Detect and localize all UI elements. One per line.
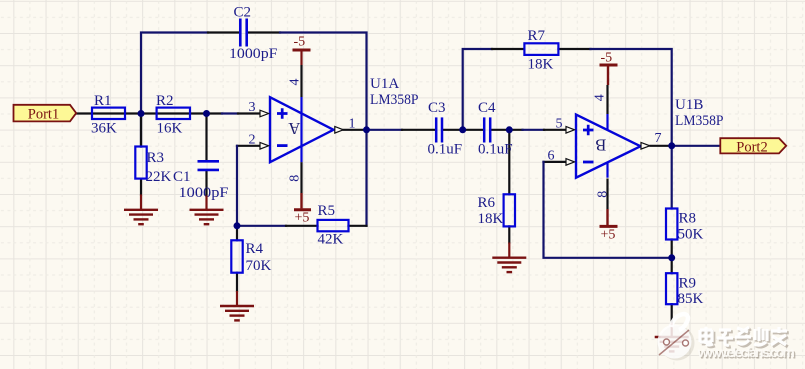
power -5 bar U1B [600,50,618,85]
wire: R4 top stem [236,226,238,241]
resistor R7 [524,28,558,73]
watermark big text (stylized CJK strokes) [702,329,789,347]
wire: U1B pin6 stub [544,161,566,163]
svg-text:R4: R4 [246,241,264,257]
svg-text:A: A [288,119,300,138]
wire: U1B pin5 stub [544,129,565,131]
wire: R7 feedback left vertical from C3/C4 node [463,49,492,130]
capacitor C3 [428,100,463,158]
resistor R3 [135,147,171,185]
pin 2 arrow U1A [260,143,269,150]
svg-text:R6: R6 [478,195,496,211]
svg-text:R5: R5 [318,203,336,219]
svg-text:R1: R1 [94,93,112,109]
pin 4 stub U1B [606,114,608,130]
wire: output node down to R8 [671,146,673,209]
watermark url text [697,344,796,361]
pin 4 stub U1A [300,97,302,162]
svg-text:8: 8 [288,175,303,182]
svg-text:+5: +5 [295,210,310,225]
wire: R6 bottom stem to ground [508,226,510,242]
svg-text:1000pF: 1000pF [229,46,278,62]
svg-text:36K: 36K [91,121,117,137]
wire: C2 feedback top-right run down to U1A output node [280,33,367,226]
wire: R7 feedback right run down to U1B output node [591,49,672,146]
resistor R4 [231,240,271,274]
svg-text:0.1uF: 0.1uF [428,142,463,158]
wire: R9 bottom stem to ground [671,304,673,322]
pin 5 arrow U1B [566,127,575,134]
svg-text:1000pF: 1000pF [179,185,229,201]
wire: C2 feedback top-left run (node R1/R2 junction up and over) [141,33,208,147]
junction node R2/C1/pin3 [203,110,210,117]
svg-text:LM358P: LM358P [370,92,419,108]
svg-text:R3: R3 [147,150,165,166]
junction node R1/R2/R3 [138,110,145,117]
junction node U1B output/Port2/R8 [668,142,675,149]
wire: C3 left pin [402,129,435,131]
wire: C1 bottom stem to ground [205,171,207,195]
svg-text:18K: 18K [478,211,504,227]
power -5 bar U1A [293,35,311,66]
junction node C3/C4/R7 [459,126,466,133]
svg-text:3: 3 [249,100,256,115]
pin 4 wire U1A [300,65,302,97]
svg-text:Port2: Port2 [736,140,767,156]
wire: U1A pin2 stub [237,145,260,147]
ground below R4 [220,291,254,320]
svg-text:-5: -5 [294,35,306,50]
resistor R2 [156,93,190,137]
wire: R7 left pin [492,48,524,50]
svg-text:LM358P: LM358P [675,113,724,129]
svg-text:C4: C4 [478,100,496,116]
pin 6 arrow U1B [566,159,575,166]
op-amp U1B [576,97,724,178]
svg-text:www.elecfans.com: www.elecfans.com [697,344,795,360]
ground below R9 [655,323,689,352]
wire: C3 to C4 [443,129,483,131]
wire: R4 bottom stem to ground [236,273,238,291]
svg-text:8: 8 [596,191,611,198]
svg-text:C3: C3 [428,100,446,116]
port Port2 [720,138,786,155]
svg-text:-5: -5 [601,50,613,65]
junction node pin2/R4/R5 [234,222,241,229]
svg-text:50K: 50K [678,227,704,243]
svg-text:R8: R8 [679,211,697,227]
junction node U1A output [363,126,370,133]
wire: U1A inverting feedback loop down and right [237,146,286,226]
svg-text:C2: C2 [234,5,252,21]
svg-text:42K: 42K [318,232,344,248]
capacitor C4 [478,100,513,158]
wire: U1A output to node [344,129,367,131]
wire: C2 left pin [208,31,239,33]
svg-text:4: 4 [593,94,608,101]
svg-text:70K: 70K [246,258,272,274]
svg-text:5: 5 [556,116,563,131]
power +5 bar U1B [600,209,618,242]
svg-text:R2: R2 [156,93,174,109]
wire: R3 top pin from junction [140,114,142,147]
pin 3 arrow U1A [260,110,269,117]
wire: U1A pin3 stub [238,112,260,114]
wire: R8 bottom pin to node [671,240,673,258]
wire: node to C3 [367,129,403,131]
pin 8 wire U1A [300,162,302,193]
svg-text:6: 6 [548,149,555,164]
svg-text:22K: 22K [146,169,172,185]
svg-text:R9: R9 [679,276,697,292]
pin 8 stub U1B [606,163,608,178]
svg-text:B: B [595,136,606,155]
ground below R3 [124,195,158,225]
wire: R7 right pin [559,48,591,50]
op-amp U1A [270,76,419,162]
watermark logo circle [658,314,695,361]
wire: U1B inverting feedback loop down and right [544,162,672,258]
wire: segment to U1B pin5 [523,129,545,131]
wire: C1 top tap from input row [205,114,207,161]
pin 7 arrow U1B [641,143,650,150]
resistor R9 [666,273,704,307]
capacitor C1 [173,161,229,201]
wire: R5 right pin to output vertical [349,225,367,227]
resistor R8 [666,209,704,243]
svg-text:4: 4 [288,79,303,86]
svg-text:R7: R7 [528,28,546,44]
wire: output node to Port2 [672,145,721,147]
resistor R5 [318,203,349,248]
wire: C4 right pin [492,129,523,131]
wire: U1B output stub [651,145,672,147]
wire: R5 left pin [286,225,318,227]
wire: input row Port1-R1-R2 segment [76,112,222,114]
wire: R6 top stem [508,130,510,195]
svg-text:Port1: Port1 [28,106,59,122]
wire: node to R9 top [671,258,673,273]
power +5 bar U1A [294,193,311,225]
wire: segment to U1A pin3 [222,112,238,114]
svg-text:7: 7 [655,131,662,146]
port Port1 [14,105,77,123]
resistor R1 [91,93,125,137]
ground below R6 [492,243,526,273]
pin 8 wire U1B [606,179,608,210]
junction node R8/R9/feedback [668,254,675,261]
svg-text:U1B: U1B [675,97,703,113]
wire: R3 bottom stem to ground [140,179,142,195]
capacitor C2 [229,5,278,63]
svg-text:C1: C1 [173,169,191,185]
pin 1 arrow U1A [335,127,344,134]
svg-text:16K: 16K [157,121,183,137]
svg-text:85K: 85K [678,291,704,307]
svg-text:18K: 18K [528,57,554,73]
svg-text:U1A: U1A [370,76,399,92]
junction node C4/R6/pin5 [506,126,513,133]
svg-text:+5: +5 [601,227,616,242]
resistor R6 [478,194,516,227]
svg-text:0.1uF: 0.1uF [478,142,513,158]
pin 4 wire U1B [606,85,608,114]
wire: C2 right pin [248,31,280,33]
svg-text:1: 1 [349,117,356,132]
svg-text:2: 2 [249,132,256,147]
ground below C1 [190,196,224,225]
